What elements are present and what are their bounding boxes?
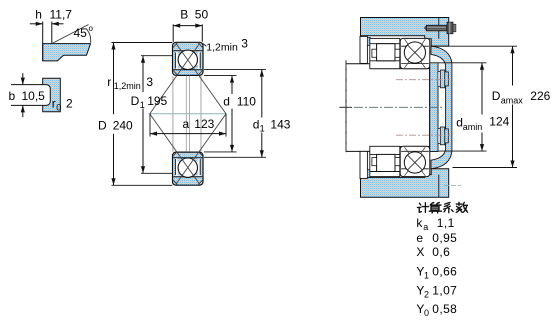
svg-text:226: 226 [530, 89, 550, 103]
svg-text:124: 124 [489, 115, 509, 129]
shaft end face line [345, 60, 347, 155]
contact lines upper [405, 39, 426, 68]
svg-text:2: 2 [424, 289, 429, 299]
svg-text:0,95: 0,95 [432, 231, 457, 245]
cage bars upper [372, 49, 377, 57]
dimension d 110 [204, 75, 237, 77]
housing upper block [361, 18, 449, 47]
svg-text:50: 50 [195, 8, 209, 22]
dimension d_amin 124 [438, 62, 487, 64]
abutment ring lower [360, 151, 367, 178]
raceway lips lower section [178, 158, 182, 162]
upper section corner chamfer marks [173, 43, 178, 48]
contact angle lines (X pattern) [150, 43, 200, 113]
face projection lines between sections [172, 76, 174, 152]
end cover shell [431, 46, 452, 169]
svg-text:123: 123 [194, 117, 214, 131]
seal ring segment upper [367, 37, 370, 45]
axis tick [340, 106, 352, 108]
roller bearing upper: outer outline [370, 38, 400, 68]
svg-text:D: D [492, 89, 501, 103]
svg-text:a: a [183, 117, 190, 131]
ball lower [178, 158, 197, 177]
svg-text:240: 240 [113, 118, 133, 132]
extension line upper (slot side) [11, 84, 43, 86]
svg-text:b: b [9, 89, 16, 103]
bolt axis lower [396, 134, 450, 136]
upper section raceway gaps [175, 51, 181, 69]
svg-text:D: D [98, 118, 107, 132]
dimension D_amax 226 [431, 45, 517, 47]
svg-text:r: r [52, 97, 56, 111]
svg-text:2: 2 [66, 97, 73, 111]
svg-text:0: 0 [56, 102, 61, 112]
svg-text:0: 0 [424, 308, 429, 318]
raceway lips upper section [178, 51, 182, 55]
chamfer label 1,2min 3 with leader [203, 43, 207, 46]
dimension a 123 [149, 114, 151, 137]
extension line lower (slot side) [11, 104, 43, 106]
dimension D 240 [112, 42, 173, 44]
detail drawing: slot width cross-section (b / r0) [43, 78, 61, 112]
upper section shoulder lines [173, 50, 202, 52]
svg-text:amin: amin [463, 122, 483, 132]
roller bearing lower: outer outline [370, 146, 400, 176]
svg-text:amax: amax [501, 95, 524, 105]
bolt axis upper [396, 79, 450, 81]
bolt head [447, 22, 453, 34]
svg-text:a: a [423, 222, 428, 232]
dimension d1 143 [204, 69, 266, 71]
svg-text:1,07: 1,07 [432, 283, 457, 297]
housing split line at bolt [438, 18, 440, 39]
svg-text:D: D [131, 94, 140, 108]
lower section shoulder lines [173, 157, 202, 159]
angle arc [86, 28, 91, 43]
main bearing cross-section, lower ring section [173, 152, 204, 185]
roller lower [377, 154, 395, 171]
svg-text:0,66: 0,66 [432, 264, 457, 278]
svg-text:e: e [416, 231, 423, 245]
dimension b arrows [22, 73, 24, 84]
svg-text:1: 1 [140, 100, 145, 110]
lower section raceway gaps [175, 158, 181, 176]
svg-text:45: 45 [74, 26, 88, 40]
clamp bolt upper [438, 71, 440, 86]
ball upper [178, 50, 197, 69]
extension line left of slot [42, 22, 44, 61]
svg-text:1: 1 [260, 123, 265, 133]
svg-text:10,5: 10,5 [22, 89, 46, 103]
svg-text:3: 3 [241, 37, 248, 51]
svg-text:195: 195 [147, 94, 167, 108]
svg-text:3: 3 [146, 75, 153, 89]
dimension B 50 [172, 24, 174, 42]
attachment bolt upper [424, 25, 427, 31]
housing lower block [361, 169, 449, 198]
main axis centerline [339, 106, 443, 108]
svg-text:11,7: 11,7 [50, 7, 73, 21]
svg-text:d: d [223, 94, 230, 108]
abutment ring upper [360, 36, 367, 63]
horizontal centerline through contact vertices [148, 113, 226, 115]
extension line at slot edge [51, 22, 53, 44]
dimension D1 195 [141, 55, 172, 57]
roller upper [377, 44, 395, 61]
ball lower right fig [404, 152, 425, 173]
svg-text:1,2min: 1,2min [206, 42, 238, 54]
seal ring segment lower [367, 169, 370, 177]
QJ bearing section lower [400, 146, 430, 176]
QJ bearing section upper (in housing) [400, 38, 430, 68]
svg-text:o: o [89, 24, 94, 33]
svg-text:h: h [35, 7, 42, 21]
cage bars lower [372, 158, 377, 166]
lower section corner chamfer marks [173, 152, 178, 157]
svg-text:0,6: 0,6 [432, 245, 450, 259]
clamp bolt lower [438, 129, 440, 144]
contact lines lower [405, 147, 426, 176]
faint center mark in lower block [444, 184, 461, 186]
detail drawing: ring slot cross-section (h / 45 deg) [43, 44, 91, 61]
clamping plate [430, 63, 438, 152]
main bearing cross-section, upper ring section [173, 42, 204, 75]
shaft [346, 64, 430, 152]
svg-text:r: r [107, 75, 111, 89]
svg-text:1,2min: 1,2min [114, 81, 141, 91]
svg-text:0,58: 0,58 [432, 302, 457, 316]
svg-text:1: 1 [424, 270, 429, 280]
svg-text:143: 143 [270, 117, 290, 131]
ball upper right fig [404, 42, 425, 63]
bolt end washer [453, 24, 456, 32]
svg-text:X: X [416, 245, 424, 259]
svg-text:110: 110 [237, 94, 256, 108]
svg-text:B: B [180, 8, 188, 22]
45 degree chamfer construction line [52, 25, 89, 44]
svg-text:d: d [253, 117, 260, 131]
svg-text:1,1: 1,1 [437, 216, 455, 230]
heading: calculation factors (Chinese) drawn as strokes [417, 202, 467, 213]
dimension h arrows [30, 23, 43, 25]
